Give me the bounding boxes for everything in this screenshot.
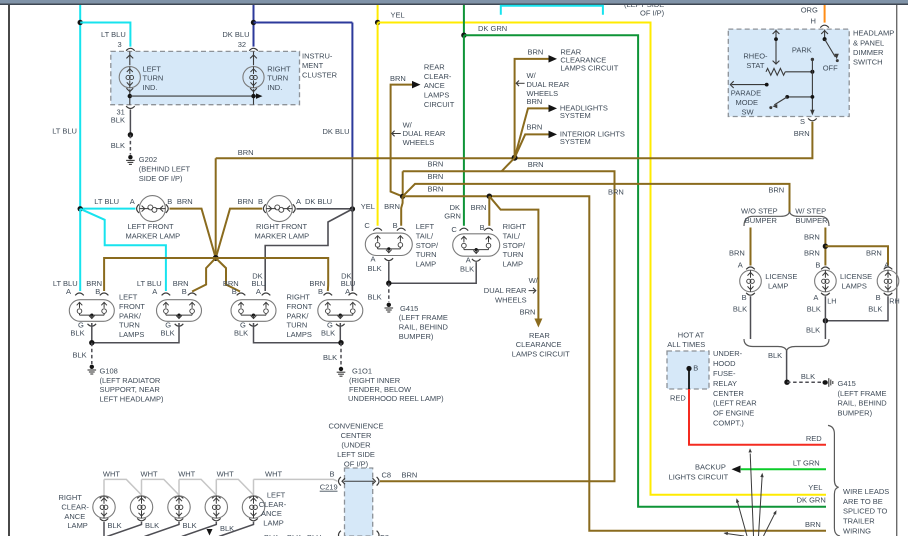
node BLK LH junction bbox=[823, 318, 828, 323]
wire BRN branch to interior lights system bbox=[515, 134, 550, 157]
svg-text:BRN: BRN bbox=[428, 185, 444, 194]
svg-text:OF I/P): OF I/P) bbox=[640, 8, 665, 17]
svg-text:BLK: BLK bbox=[73, 351, 87, 360]
svg-text:HOOD: HOOD bbox=[713, 359, 736, 368]
wire BRN star to park lamp2 B bbox=[192, 258, 216, 292]
node BRN main junction bbox=[512, 155, 518, 161]
svg-text:SW: SW bbox=[742, 108, 755, 117]
wire DK BLU branch to park lamp 3 A bbox=[265, 209, 352, 291]
svg-text:OF I/P): OF I/P) bbox=[344, 459, 369, 468]
label LICENSE LAMPS bbox=[840, 272, 872, 290]
lamp clearance 1 bbox=[93, 496, 115, 518]
svg-text:ALL TIMES: ALL TIMES bbox=[667, 340, 705, 349]
svg-text:LEFT: LEFT bbox=[267, 491, 286, 500]
svg-text:& PANEL: & PANEL bbox=[853, 38, 884, 47]
wire YEL drop to left tail lamp C bbox=[377, 23, 379, 226]
svg-text:B: B bbox=[232, 287, 237, 296]
brace wire leads to trailer bbox=[828, 425, 840, 536]
svg-text:YEL: YEL bbox=[361, 202, 375, 211]
svg-text:SWITCH: SWITCH bbox=[853, 58, 883, 67]
svg-text:DK GRN: DK GRN bbox=[797, 496, 826, 505]
lamp clearance 4 bbox=[205, 496, 227, 518]
annotation W/ DUAL REAR WHEELS arrow right side bbox=[517, 82, 525, 84]
wire BRN from right marker B to star bbox=[216, 209, 263, 258]
wire BLK license left down bbox=[750, 296, 752, 339]
svg-text:BUMPER: BUMPER bbox=[796, 216, 829, 225]
svg-text:LAMPS: LAMPS bbox=[119, 330, 144, 339]
node BLK G1O1 junction bbox=[338, 340, 343, 345]
svg-text:SUPPORT, NEAR: SUPPORT, NEAR bbox=[100, 385, 161, 394]
svg-text:BLK: BLK bbox=[161, 329, 175, 338]
connector clearance lamp1 bottom bbox=[100, 518, 109, 520]
svg-text:TURN: TURN bbox=[503, 250, 524, 259]
svg-text:BLK: BLK bbox=[323, 353, 337, 362]
connector clearance lamp3 top bbox=[175, 496, 184, 498]
svg-text:CIRCUIT: CIRCUIT bbox=[424, 100, 455, 109]
svg-text:B: B bbox=[480, 223, 485, 232]
svg-text:BRN: BRN bbox=[428, 160, 444, 169]
parade switch arm bbox=[787, 96, 812, 98]
parade mode arrow bbox=[732, 84, 767, 86]
node YEL junction bbox=[375, 20, 380, 25]
node BRN right tail junction bbox=[487, 194, 492, 199]
wire BRN row2 diagonal to main junction bbox=[502, 158, 515, 172]
svg-text:PARK: PARK bbox=[792, 46, 812, 55]
rheostat arm vertical bbox=[775, 30, 777, 65]
svg-text:RIGHT: RIGHT bbox=[267, 64, 291, 73]
svg-text:RIGHT: RIGHT bbox=[503, 222, 527, 231]
svg-text:RIGHT FRONT: RIGHT FRONT bbox=[256, 222, 308, 231]
svg-text:BRN: BRN bbox=[804, 249, 820, 258]
svg-text:LAMPS: LAMPS bbox=[287, 330, 312, 339]
node BLK G202 junction bbox=[128, 132, 133, 137]
svg-text:BRN: BRN bbox=[527, 122, 543, 131]
svg-text:FENDER, BELOW: FENDER, BELOW bbox=[349, 385, 412, 394]
svg-text:OF ENGINE: OF ENGINE bbox=[713, 409, 754, 418]
wire BRN branch to headlights system bbox=[515, 108, 550, 157]
label LEFT TURN IND. bbox=[143, 64, 164, 92]
connector clearance lamp3 bottom bbox=[175, 518, 184, 520]
connector right tail A pin bbox=[472, 259, 481, 261]
svg-text:IND.: IND. bbox=[143, 83, 158, 92]
wire BLK dashed to G415 bbox=[388, 283, 390, 302]
svg-text:BLK: BLK bbox=[368, 293, 382, 302]
svg-text:BRN: BRN bbox=[177, 197, 193, 206]
svg-text:BLK: BLK bbox=[111, 116, 125, 125]
svg-text:G108: G108 bbox=[100, 367, 118, 376]
svg-text:DUAL REAR: DUAL REAR bbox=[484, 286, 527, 295]
svg-text:LEFT: LEFT bbox=[119, 293, 138, 302]
svg-text:RAIL, BEHIND: RAIL, BEHIND bbox=[838, 399, 888, 408]
svg-text:(LEFT FRAME: (LEFT FRAME bbox=[399, 313, 448, 322]
connector clearance lamp2 top bbox=[137, 496, 146, 498]
svg-text:WHT: WHT bbox=[217, 470, 234, 479]
switch box headlamp dimmer bbox=[728, 29, 849, 116]
lamp left tail/stop/turn bbox=[365, 233, 412, 255]
svg-text:RED: RED bbox=[806, 434, 822, 443]
svg-text:(LEFT REAR: (LEFT REAR bbox=[713, 399, 757, 408]
label G415 (LEFT FRAME RAIL, BEHIND BUMPER) right bbox=[838, 379, 888, 417]
node DK BLU junction at x352 bbox=[350, 206, 355, 211]
svg-text:A: A bbox=[130, 197, 135, 206]
connector park lamp1 pins bbox=[75, 293, 84, 295]
connector pin H bbox=[820, 25, 829, 27]
svg-text:BRN: BRN bbox=[402, 471, 418, 480]
svg-text:LAMPS: LAMPS bbox=[424, 91, 449, 100]
label UNDERHOOD FUSE-RELAY CENTER (LEFT REAR OF ENGINE COMPT.) bbox=[713, 349, 757, 427]
svg-text:LEFT: LEFT bbox=[143, 64, 162, 73]
wire BLK combined to G415 bbox=[786, 351, 788, 382]
label LEFT TAIL/STOP/TURN LAMP bbox=[416, 222, 439, 268]
ground G415 left bbox=[385, 303, 394, 312]
svg-text:ARE TO BE: ARE TO BE bbox=[843, 497, 883, 506]
svg-text:32: 32 bbox=[238, 40, 246, 49]
svg-text:IND.: IND. bbox=[267, 83, 282, 92]
svg-text:LAMPS: LAMPS bbox=[842, 281, 867, 290]
lamp left turn indicator bbox=[129, 51, 131, 104]
svg-text:B: B bbox=[330, 470, 335, 479]
wire DK BLU vertical to brown bus crossing bbox=[351, 23, 353, 159]
svg-text:A: A bbox=[66, 287, 71, 296]
svg-text:B: B bbox=[258, 197, 263, 206]
ground G1O1 bbox=[337, 367, 346, 376]
svg-text:OFF: OFF bbox=[823, 64, 838, 73]
svg-text:LICENSE: LICENSE bbox=[840, 272, 872, 281]
wire BLK dashed to G108 bbox=[91, 343, 93, 364]
svg-text:PARADE: PARADE bbox=[731, 89, 761, 98]
svg-text:RHEO-: RHEO- bbox=[743, 52, 768, 61]
svg-text:ANCE: ANCE bbox=[424, 81, 445, 90]
connector license lamp pins bottom bbox=[746, 293, 755, 295]
label RIGHT TURN IND. bbox=[267, 64, 291, 92]
svg-text:BRN: BRN bbox=[608, 188, 624, 197]
svg-text:LT GRN: LT GRN bbox=[793, 459, 820, 468]
svg-text:BLK: BLK bbox=[220, 524, 234, 533]
lamp park/turn 2 bbox=[157, 300, 202, 322]
wire LT BLU to left marker lamp A bbox=[80, 208, 135, 210]
svg-text:DK BLU: DK BLU bbox=[305, 197, 332, 206]
wire DK BLU from right marker A to junction bbox=[296, 208, 352, 210]
svg-text:MENT: MENT bbox=[302, 61, 324, 70]
wire BRN W/O step to license lamp A bbox=[750, 228, 752, 266]
wire BRN from left marker B to star bbox=[170, 209, 216, 258]
wire LT BLU to park lamp 2 A bbox=[80, 209, 166, 291]
wire DK GRN vertical from top bbox=[463, 5, 465, 35]
svg-text:MARKER LAMP: MARKER LAMP bbox=[126, 232, 181, 241]
wire YEL feed to trailer: right and down bbox=[378, 23, 826, 495]
svg-text:INSTRU-: INSTRU- bbox=[302, 51, 333, 60]
connector clearance lamp4 bottom bbox=[212, 518, 221, 520]
svg-text:C: C bbox=[364, 221, 370, 230]
svg-text:W/ STEP: W/ STEP bbox=[795, 207, 826, 216]
svg-text:BLK: BLK bbox=[460, 265, 474, 274]
svg-text:UNDER-: UNDER- bbox=[713, 349, 743, 358]
label HOT AT ALL TIMES bbox=[667, 330, 705, 349]
svg-text:BUMPER): BUMPER) bbox=[838, 408, 873, 417]
svg-text:LAMP: LAMP bbox=[768, 281, 788, 290]
svg-text:3: 3 bbox=[118, 40, 122, 49]
wire YEL vertical from top bbox=[377, 5, 379, 23]
svg-text:LAMP: LAMP bbox=[67, 521, 87, 530]
svg-text:CLEARANCE: CLEARANCE bbox=[516, 340, 562, 349]
svg-text:PARK/: PARK/ bbox=[287, 311, 310, 320]
label RIGHT FRONT MARKER LAMP bbox=[255, 222, 310, 240]
svg-text:DK BLU: DK BLU bbox=[323, 127, 350, 136]
label W/O STEP BUMPER bbox=[741, 207, 778, 225]
arrow BLK chain ground bbox=[207, 529, 213, 536]
wire cluster internal with arrow bbox=[130, 95, 256, 97]
wire LT BLU branch to cluster pin 3 bbox=[80, 23, 130, 47]
label LICENSE LAMP bbox=[765, 272, 797, 290]
svg-text:A: A bbox=[371, 255, 376, 264]
svg-text:SIDE OF I/P): SIDE OF I/P) bbox=[139, 174, 183, 183]
connector right marker B bbox=[263, 204, 265, 213]
label WIRE LEADS ARE TO BE SPLICED TO TRAILER WIRING HARNESS bbox=[843, 487, 889, 536]
svg-text:BACKUP: BACKUP bbox=[695, 463, 726, 472]
connector park lamp4 pins bbox=[324, 293, 333, 295]
svg-text:A: A bbox=[466, 255, 471, 264]
svg-text:LIGHTS CIRCUIT: LIGHTS CIRCUIT bbox=[669, 472, 729, 481]
svg-text:H: H bbox=[811, 16, 816, 25]
label RIGHT FRONT PARK/TURN LAMPS bbox=[287, 293, 313, 339]
wire LT BLU vertical main bbox=[79, 5, 81, 209]
svg-text:BLK: BLK bbox=[145, 521, 159, 530]
svg-text:BLK: BLK bbox=[111, 141, 125, 150]
svg-text:S: S bbox=[800, 117, 805, 126]
svg-text:TAIL/: TAIL/ bbox=[503, 232, 521, 241]
ground G415 right bbox=[823, 380, 827, 384]
svg-text:BRN: BRN bbox=[527, 97, 543, 106]
svg-text:BLK: BLK bbox=[801, 372, 815, 381]
svg-text:LH: LH bbox=[827, 297, 836, 306]
wire BRN star to park lamp1 B bbox=[104, 258, 216, 291]
wire BLK park lamp1 ground bbox=[91, 323, 93, 343]
svg-text:WHT: WHT bbox=[178, 470, 195, 479]
label INSTRUMENT CLUSTER bbox=[302, 51, 338, 79]
wire BRN bus drop to star junction bbox=[215, 158, 217, 258]
svg-text:LT BLU: LT BLU bbox=[94, 197, 119, 206]
annotation W/ DUAL REAR WHEELS arrow at brn drop bbox=[484, 276, 539, 304]
svg-text:STOP/: STOP/ bbox=[416, 241, 439, 250]
svg-text:RAIL, BEHIND: RAIL, BEHIND bbox=[399, 323, 449, 332]
svg-text:HOT AT: HOT AT bbox=[678, 330, 705, 339]
svg-text:WHEELS: WHEELS bbox=[403, 138, 435, 147]
brace license grounds join bbox=[744, 339, 829, 351]
connector park lamp2 pins bbox=[162, 293, 171, 295]
svg-text:UNDERHOOD REEL LAMP): UNDERHOOD REEL LAMP) bbox=[348, 394, 444, 403]
label REAR CLEARANCE LAMPS CIRCUIT right bbox=[560, 48, 618, 73]
wire ORG vertical from top bbox=[824, 5, 826, 23]
right page border line bbox=[896, 5, 897, 536]
switch wiper vertical to S bbox=[811, 59, 813, 113]
wire BRN branch to rear clearance lamps circuit (up) bbox=[515, 59, 550, 158]
svg-text:BUMPER: BUMPER bbox=[745, 216, 778, 225]
svg-text:BRN: BRN bbox=[384, 202, 400, 211]
wire WHT daisy chain clearance lamps bbox=[103, 479, 105, 495]
wire BLK park lamp3 ground bbox=[254, 323, 342, 343]
switch H pin arm bbox=[824, 30, 826, 38]
svg-text:(UNDER: (UNDER bbox=[341, 440, 371, 449]
label RHEOSTAT bbox=[743, 52, 768, 70]
svg-text:ANCE: ANCE bbox=[261, 509, 282, 518]
node BRN license junction bbox=[823, 244, 828, 249]
label PARADE MODE SW bbox=[731, 89, 761, 117]
node BLK at G415 right bbox=[784, 380, 789, 385]
wire BRN to RH license lamp bbox=[825, 246, 888, 265]
svg-text:CENTER: CENTER bbox=[341, 431, 372, 440]
svg-text:BLK: BLK bbox=[321, 329, 335, 338]
label LEFT CLEARANCE LAMP bbox=[259, 491, 287, 528]
wire BRN branch rear clearance lamps circuit (left) bbox=[391, 85, 413, 197]
bottom edge connector fragment bbox=[339, 531, 341, 536]
node BLK G108 junction bbox=[89, 340, 94, 345]
svg-text:CLEAR-: CLEAR- bbox=[259, 500, 287, 509]
wire BLK fuse B stub bbox=[688, 369, 690, 390]
svg-text:TURN: TURN bbox=[119, 321, 140, 330]
lamp clearance 3 bbox=[168, 496, 190, 518]
svg-text:B: B bbox=[95, 287, 100, 296]
svg-text:LEFT HEADLAMP): LEFT HEADLAMP) bbox=[100, 395, 165, 404]
wire BLK dashed to G415 right bbox=[787, 381, 822, 383]
svg-text:LAMPS CIRCUIT: LAMPS CIRCUIT bbox=[560, 64, 618, 73]
wire BRN star to park lamp3 B bbox=[216, 258, 240, 292]
svg-text:A: A bbox=[152, 287, 157, 296]
svg-text:C: C bbox=[451, 225, 457, 234]
wire BRN row3 to license lamps bbox=[403, 184, 790, 214]
lamp right tail/stop/turn bbox=[453, 234, 500, 256]
lamp park/turn 3 bbox=[231, 300, 276, 322]
svg-text:BLK: BLK bbox=[733, 305, 747, 314]
wire BLK dashed to G1O1 bbox=[340, 343, 342, 366]
svg-text:ORG: ORG bbox=[801, 5, 818, 14]
node BRN left tail junction bbox=[400, 194, 405, 199]
svg-text:LT BLU: LT BLU bbox=[52, 127, 77, 136]
svg-text:W/: W/ bbox=[527, 71, 537, 80]
wire LT BLU to left front park lamp A bbox=[79, 209, 81, 291]
label LEFT FRONT PARK/TURN LAMPS bbox=[119, 293, 145, 339]
svg-text:B: B bbox=[393, 221, 398, 230]
svg-text:CLEAR-: CLEAR- bbox=[61, 503, 89, 512]
annotation BACKUP LIGHTS CIRCUIT arrow bbox=[732, 466, 741, 474]
svg-text:BRN: BRN bbox=[768, 185, 784, 194]
svg-text:MODE: MODE bbox=[736, 98, 759, 107]
node BRN star junction bbox=[213, 255, 219, 261]
svg-text:PARK/: PARK/ bbox=[119, 311, 142, 320]
svg-text:BRN: BRN bbox=[471, 203, 487, 212]
svg-text:BRN: BRN bbox=[428, 172, 444, 181]
lamp left front marker bbox=[139, 196, 165, 222]
wire DK GRN feed to trailer: right and down bbox=[464, 35, 826, 507]
svg-text:B: B bbox=[167, 197, 172, 206]
svg-text:BLK: BLK bbox=[70, 329, 84, 338]
connector right marker A bbox=[293, 204, 295, 213]
svg-text:BRN: BRN bbox=[804, 233, 820, 242]
svg-text:LAMP: LAMP bbox=[503, 259, 523, 268]
svg-text:WHT: WHT bbox=[141, 470, 158, 479]
svg-text:CLEAR-: CLEAR- bbox=[424, 72, 452, 81]
label G108 (LEFT RADIATOR SUPPORT, NEAR LEFT HEADLAMP) bbox=[100, 367, 165, 404]
svg-text:SYSTEM: SYSTEM bbox=[560, 137, 591, 146]
svg-text:(LEFT RADIATOR: (LEFT RADIATOR bbox=[100, 376, 161, 385]
wire rheostat to wiper bus bbox=[785, 71, 812, 73]
wire BLK RH down and left bbox=[825, 296, 888, 321]
convenience center box bbox=[345, 468, 373, 536]
svg-text:BLK: BLK bbox=[234, 329, 248, 338]
svg-text:B: B bbox=[693, 364, 698, 373]
connector pin 32 bbox=[249, 48, 258, 50]
leader arrows to trailer wires bbox=[750, 454, 753, 536]
svg-text:REAR: REAR bbox=[424, 62, 445, 71]
svg-text:REAR: REAR bbox=[529, 331, 550, 340]
svg-text:LEFT FRONT: LEFT FRONT bbox=[128, 222, 175, 231]
svg-text:CENTER: CENTER bbox=[713, 389, 744, 398]
svg-text:W/: W/ bbox=[529, 276, 539, 285]
connector clearance lamp5 bottom bbox=[249, 518, 258, 520]
wire cyan stub top center bbox=[501, 6, 603, 15]
label G202 (BEHIND LEFT SIDE OF I/P) bbox=[139, 155, 191, 183]
svg-text:FUSE-: FUSE- bbox=[713, 369, 736, 378]
lamp right turn indicator bbox=[253, 51, 255, 104]
svg-text:STOP/: STOP/ bbox=[503, 241, 526, 250]
node BLK G415 junction bbox=[386, 281, 391, 286]
connector clearance lamp4 top bbox=[212, 496, 221, 498]
wire BLK dashed to G202 bbox=[129, 135, 131, 155]
svg-text:WHEELS: WHEELS bbox=[495, 295, 527, 304]
svg-text:C8: C8 bbox=[382, 471, 392, 480]
svg-text:CLUSTER: CLUSTER bbox=[302, 71, 338, 80]
svg-text:BLK: BLK bbox=[768, 351, 782, 360]
wire BLK park lamp4 ground bbox=[339, 323, 341, 343]
connector C219/C8 right arc bbox=[377, 477, 379, 486]
svg-text:LICENSE: LICENSE bbox=[765, 272, 797, 281]
lamp license RH bbox=[877, 270, 899, 292]
connector clearance lamp1 top bbox=[100, 496, 109, 498]
label HEADLIGHTS SYSTEM bbox=[560, 103, 608, 120]
connector pin 31 bbox=[126, 106, 135, 108]
wire BLK LH down bbox=[824, 296, 826, 339]
instrument cluster box bbox=[111, 51, 300, 104]
connector pin 3 bbox=[126, 48, 135, 50]
svg-text:DK BLU: DK BLU bbox=[222, 30, 249, 39]
svg-text:DIMMER: DIMMER bbox=[853, 48, 884, 57]
fuse box underhood fuse-relay center bbox=[667, 351, 709, 389]
svg-text:MARKER LAMP: MARKER LAMP bbox=[255, 232, 310, 241]
connector pin S bbox=[808, 118, 817, 120]
connector left marker A bbox=[137, 204, 139, 213]
wire BRN branch to rear clearance circuit (down arrow) bbox=[489, 196, 538, 318]
node cluster internal right bbox=[251, 94, 255, 98]
svg-text:W/O STEP: W/O STEP bbox=[741, 207, 778, 216]
svg-text:FRONT: FRONT bbox=[287, 302, 313, 311]
svg-text:DK GRN: DK GRN bbox=[478, 24, 507, 33]
svg-text:TURN: TURN bbox=[287, 321, 308, 330]
connector left tail A pin bbox=[385, 258, 394, 260]
svg-text:A: A bbox=[738, 261, 743, 270]
connector right tail C B pins bbox=[460, 228, 469, 230]
connector C219/C8 double arrow bbox=[344, 480, 375, 482]
svg-text:CONVENIENCE: CONVENIENCE bbox=[328, 421, 383, 430]
lamp license (w/o step bumper) bbox=[740, 270, 762, 292]
svg-text:BLK: BLK bbox=[807, 305, 821, 314]
label G415 (LEFT FRAME RAIL, BEHIND BUMPER) bbox=[399, 304, 449, 341]
connector left tail C B pins bbox=[373, 228, 382, 230]
wire BRN from S pin down and across main bus bbox=[216, 122, 813, 159]
brace license split bbox=[744, 212, 829, 226]
lamp clearance 2 bbox=[130, 496, 152, 518]
svg-text:(RIGHT INNER: (RIGHT INNER bbox=[349, 376, 401, 385]
svg-text:BRN: BRN bbox=[729, 249, 745, 258]
svg-text:BRN: BRN bbox=[238, 197, 254, 206]
